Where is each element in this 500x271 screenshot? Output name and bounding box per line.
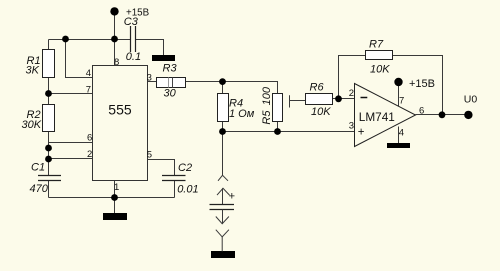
ground below external cap bbox=[211, 251, 235, 258]
svg-text:+: + bbox=[229, 190, 235, 202]
wire R4 bottom bbox=[222, 122, 224, 132]
ground at opamp pin4 bbox=[387, 143, 410, 148]
svg-text:R6: R6 bbox=[310, 82, 325, 94]
wiper bar R5 bbox=[289, 95, 291, 107]
wire R7 to output node bbox=[393, 56, 443, 115]
svg-text:1: 1 bbox=[114, 182, 119, 193]
IC 555 U1 bbox=[86, 57, 152, 193]
wire pin7 bbox=[49, 93, 93, 95]
wire R1 bottom bbox=[48, 78, 50, 105]
connector socket upper bbox=[218, 175, 228, 181]
wire wiper to R6 bbox=[290, 100, 306, 102]
svg-text:100: 100 bbox=[261, 86, 273, 105]
ground below 555 bbox=[103, 213, 127, 220]
wire opamp output bbox=[416, 114, 469, 116]
svg-text:C2: C2 bbox=[178, 162, 192, 174]
svg-text:7: 7 bbox=[399, 96, 404, 107]
svg-text:R5: R5 bbox=[261, 110, 273, 125]
wire pin2 555 bbox=[49, 158, 93, 160]
svg-text:4: 4 bbox=[399, 128, 404, 139]
junction node top rail B bbox=[111, 36, 118, 43]
connector socket lower bbox=[216, 230, 229, 252]
svg-text:C1: C1 bbox=[31, 162, 45, 174]
svg-text:8: 8 bbox=[114, 57, 119, 68]
svg-text:+15B: +15B bbox=[126, 7, 150, 18]
wire R4 top bbox=[222, 82, 224, 94]
junction node R1-R2 bbox=[45, 90, 52, 97]
svg-text:0.1: 0.1 bbox=[126, 51, 141, 63]
capacitor C3 bbox=[124, 16, 141, 63]
wire C2 bottom bbox=[174, 181, 176, 198]
svg-text:U0: U0 bbox=[464, 94, 478, 106]
svg-text:2: 2 bbox=[349, 88, 354, 99]
wire pin5 to C2 bbox=[148, 160, 175, 176]
resistor R7 bbox=[366, 39, 393, 76]
svg-text:0.01: 0.01 bbox=[177, 184, 198, 196]
potentiometer R5 bbox=[261, 86, 283, 124]
junction node below pin6 wire bbox=[45, 145, 52, 152]
junction node top rail A bbox=[62, 36, 69, 43]
svg-text:555: 555 bbox=[108, 101, 132, 117]
wire feedback up to R7 bbox=[339, 56, 366, 99]
svg-text:10K: 10K bbox=[311, 106, 331, 118]
wire +15B opamp stub bbox=[398, 82, 400, 106]
svg-text:6: 6 bbox=[419, 106, 424, 117]
wire R3 to R5 top bbox=[186, 82, 278, 94]
wire R2 bottom to C1 bbox=[48, 132, 50, 176]
svg-text:+: + bbox=[358, 127, 365, 139]
connector plug lower (arrow down) bbox=[216, 210, 229, 224]
svg-text:30: 30 bbox=[164, 88, 177, 100]
svg-text:7: 7 bbox=[86, 84, 91, 95]
junction node output bbox=[439, 111, 446, 118]
output terminal U0 bbox=[464, 94, 478, 120]
svg-text:2: 2 bbox=[87, 149, 92, 160]
capacitor C1 bbox=[30, 162, 62, 195]
junction node R6 output bbox=[335, 95, 342, 102]
junction node pin2 wire bbox=[45, 156, 52, 163]
svg-text:3: 3 bbox=[349, 121, 354, 132]
wire rail to R1 top bbox=[48, 40, 50, 50]
supply +15B top bbox=[110, 7, 149, 18]
svg-text:LM741: LM741 bbox=[359, 110, 395, 124]
svg-text:470: 470 bbox=[30, 183, 49, 195]
wire pin3 to R3 bbox=[148, 81, 157, 83]
svg-text:3: 3 bbox=[147, 73, 152, 84]
svg-text:3K: 3K bbox=[26, 65, 40, 77]
connector plug upper (arrow up) bbox=[217, 188, 230, 204]
wire pin4 branch bbox=[66, 40, 93, 78]
junction node R3-R4 bbox=[219, 78, 226, 85]
supply +15B opamp bbox=[394, 78, 435, 90]
wire R6 to opamp minus bbox=[333, 98, 355, 100]
svg-text:10K: 10K bbox=[370, 64, 390, 76]
svg-text:6: 6 bbox=[87, 133, 92, 144]
wire pin4 opamp to ground bbox=[398, 127, 400, 144]
resistor R4 bbox=[218, 94, 255, 122]
wire R5 bottom bbox=[277, 122, 279, 132]
svg-text:4: 4 bbox=[86, 68, 91, 79]
svg-text:R7: R7 bbox=[369, 39, 384, 51]
svg-text:5: 5 bbox=[147, 150, 152, 161]
resistor R3 bbox=[157, 63, 186, 100]
polarized capacitor C external bbox=[210, 190, 236, 209]
svg-text:+15B: +15B bbox=[409, 78, 435, 90]
wire top rail bbox=[49, 39, 131, 41]
op-amp U2 LM741 bbox=[349, 84, 424, 147]
svg-text:1 Ом: 1 Ом bbox=[229, 108, 255, 120]
wire pin6 bbox=[49, 142, 93, 144]
ground near C3 bbox=[152, 55, 175, 61]
wire down to external cap bbox=[222, 132, 224, 176]
resistor R2 bbox=[22, 105, 55, 132]
junction node R4 bottom bbox=[219, 128, 226, 135]
wire ground stub 555 bbox=[114, 198, 116, 214]
svg-text:30K: 30K bbox=[22, 119, 42, 131]
capacitor C2 bbox=[162, 162, 199, 196]
junction node R5 bottom bbox=[274, 128, 281, 135]
resistor R6 bbox=[306, 82, 333, 119]
wire pin1 stub bbox=[114, 181, 116, 198]
wire C1 to bottom rail bbox=[48, 181, 50, 198]
svg-text:R3: R3 bbox=[163, 63, 178, 75]
wire rail2 to opamp plus bbox=[223, 131, 355, 133]
wire C3 to ground bbox=[136, 40, 164, 56]
wire +15B stub to top rail bbox=[114, 11, 116, 39]
resistor R1 bbox=[26, 50, 55, 78]
wire bottom rail bbox=[49, 197, 175, 199]
junction node bottom rail bbox=[111, 194, 118, 201]
wire pin8 stub bbox=[114, 40, 116, 66]
